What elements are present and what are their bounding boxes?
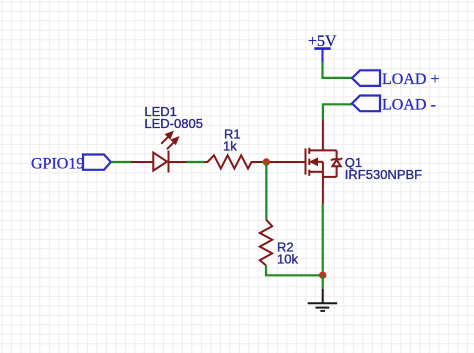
wire drain of Q1 to LOAD-: [323, 104, 352, 120]
resistor R2: [260, 220, 272, 266]
port LOAD+: [352, 70, 439, 88]
wire junction to ground: [322, 275, 324, 289]
wire GPIO19 to LED1: [111, 161, 132, 163]
transistor Q1: [270, 120, 342, 204]
svg-text:1k: 1k: [223, 139, 237, 154]
svg-text:IRF530NPBF: IRF530NPBF: [345, 167, 422, 182]
wire +5V to LOAD+: [323, 62, 353, 78]
ground: [308, 289, 338, 311]
svg-text:10k: 10k: [277, 252, 298, 267]
power +5V: [308, 33, 337, 62]
wire source of Q1 down: [322, 204, 324, 276]
svg-text:LOAD -: LOAD -: [382, 97, 436, 114]
junction node at source/R2/ground: [319, 272, 326, 279]
wire junction down to R2: [265, 162, 267, 220]
resistor R1: [205, 155, 263, 168]
wire LED1 to R1: [187, 161, 205, 163]
svg-text:GPIO19: GPIO19: [31, 156, 84, 173]
port LOAD-: [352, 96, 436, 114]
wire R1 to junction: [262, 161, 270, 163]
port GPIO19: [31, 155, 111, 173]
LED LED1: [131, 132, 187, 172]
svg-text:LOAD +: LOAD +: [382, 71, 439, 88]
svg-text:LED-0805: LED-0805: [144, 116, 203, 131]
wire R2 to junction at source: [266, 265, 323, 275]
junction node at R1/R2/gate: [263, 158, 270, 165]
